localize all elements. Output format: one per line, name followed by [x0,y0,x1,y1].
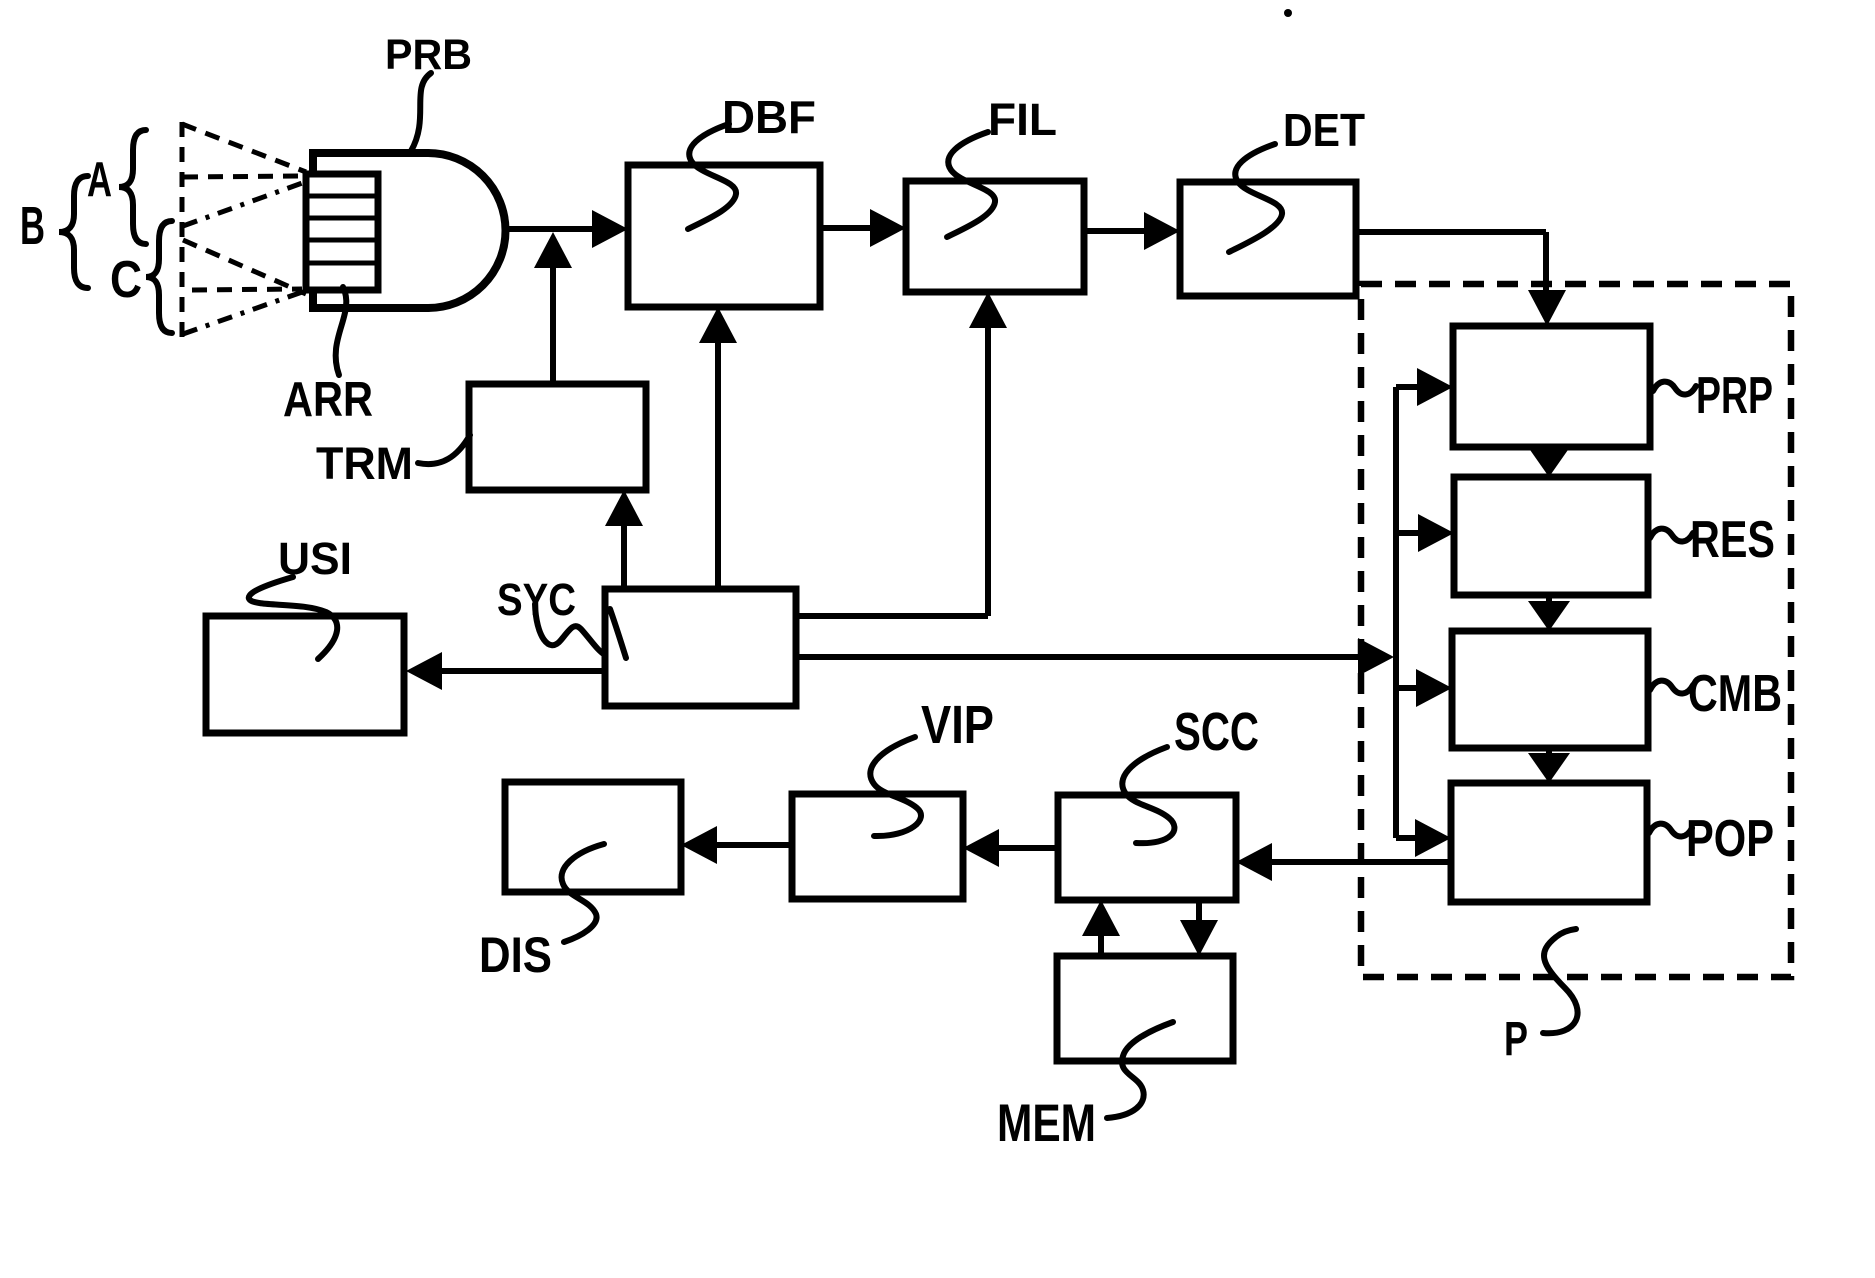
svg-text:RES: RES [1690,511,1775,569]
svg-text:DIS: DIS [479,927,552,983]
svg-text:TRM: TRM [316,438,413,489]
svg-text:SYC: SYC [497,574,576,625]
svg-text:B: B [20,196,45,256]
svg-text:PRP: PRP [1696,367,1773,425]
svg-text:SCC: SCC [1174,702,1259,762]
svg-text:CMB: CMB [1688,665,1782,723]
svg-text:VIP: VIP [921,695,994,755]
svg-text:ARR: ARR [283,373,373,427]
svg-text:DET: DET [1283,104,1365,156]
svg-text:POP: POP [1686,810,1774,868]
svg-text:USI: USI [278,533,352,584]
svg-text:DBF: DBF [722,91,816,143]
svg-text:MEM: MEM [997,1094,1096,1153]
svg-text:PRB: PRB [385,31,472,79]
svg-text:C: C [110,251,142,309]
svg-text:A: A [87,153,112,207]
svg-text:P: P [1504,1013,1528,1066]
svg-text:FIL: FIL [988,94,1057,145]
